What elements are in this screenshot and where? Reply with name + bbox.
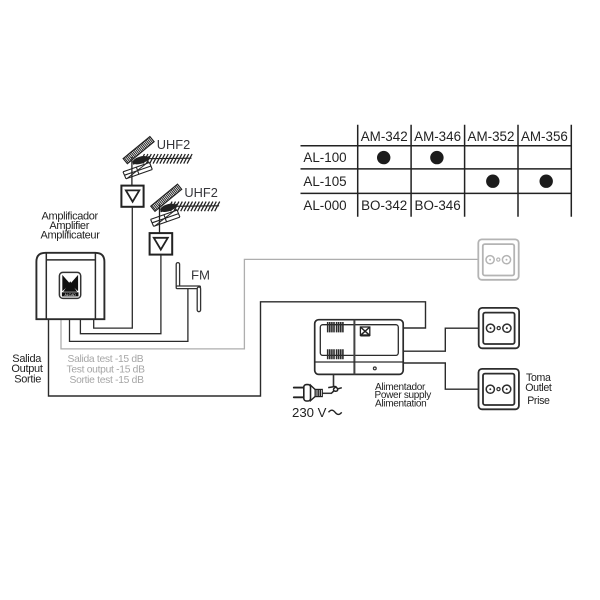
wire test output (gray) to gray outlet — [61, 259, 478, 349]
power cord — [333, 374, 335, 386]
svg-text:AM-352: AM-352 — [468, 129, 515, 144]
FM antenna — [176, 263, 200, 312]
svg-text:ALCAD: ALCAD — [65, 293, 77, 297]
outlet middle — [479, 308, 519, 348]
table dots — [377, 151, 553, 188]
power supply LED — [373, 367, 376, 370]
power supply transformer bowtie — [360, 327, 369, 335]
power supply coil top — [328, 322, 343, 332]
svg-text:Salida test -15 dB: Salida test -15 dB — [68, 354, 144, 365]
outlet gray (test) — [478, 239, 518, 279]
power supply unit — [315, 320, 404, 375]
antenna UHF2 #2 — [151, 184, 220, 233]
svg-text:Amplificateur: Amplificateur — [40, 230, 100, 242]
preamplifier box 2 — [150, 233, 173, 255]
svg-text:BO-342: BO-342 — [361, 198, 407, 213]
svg-text:Outlet: Outlet — [525, 382, 552, 394]
antenna UHF2 #1 — [123, 137, 192, 186]
preamplifier box 1 — [121, 186, 143, 207]
cord knot — [328, 386, 342, 393]
power supply coil bottom — [328, 349, 343, 359]
svg-text:AL-000: AL-000 — [303, 198, 346, 213]
power supply bottom line — [315, 361, 404, 363]
power supply divider — [353, 320, 355, 375]
wire main output to power supply — [49, 302, 426, 396]
wire power supply output 2 to outlet — [404, 363, 479, 389]
wire FM to amplifier — [70, 288, 188, 341]
svg-text:AM-346: AM-346 — [414, 129, 461, 144]
wire UHF1 to amplifier — [94, 207, 133, 328]
mains plug — [294, 385, 323, 401]
svg-text:FM: FM — [191, 268, 210, 283]
svg-text:Prise: Prise — [527, 395, 550, 407]
amplifier housing — [36, 253, 104, 319]
ALCAD logo — [59, 272, 80, 298]
wire power supply output 1 to outlet — [404, 328, 479, 351]
svg-text:AM-356: AM-356 — [521, 129, 568, 144]
outlet bottom — [479, 369, 519, 409]
svg-text:Sortie test -15 dB: Sortie test -15 dB — [70, 375, 145, 386]
svg-text:AL-100: AL-100 — [303, 150, 346, 165]
table model matrix — [301, 125, 572, 217]
wire UHF2 to amplifier — [80, 255, 160, 334]
svg-text:Test output -15 dB: Test output -15 dB — [67, 365, 146, 376]
svg-text:Alimentation: Alimentation — [375, 399, 426, 410]
table header labels — [303, 129, 567, 213]
svg-text:BO-346: BO-346 — [415, 198, 461, 213]
svg-text:230 V: 230 V — [292, 405, 327, 420]
svg-text:AM-342: AM-342 — [361, 129, 408, 144]
svg-text:AL-105: AL-105 — [303, 174, 346, 189]
svg-text:Sortie: Sortie — [14, 373, 41, 385]
